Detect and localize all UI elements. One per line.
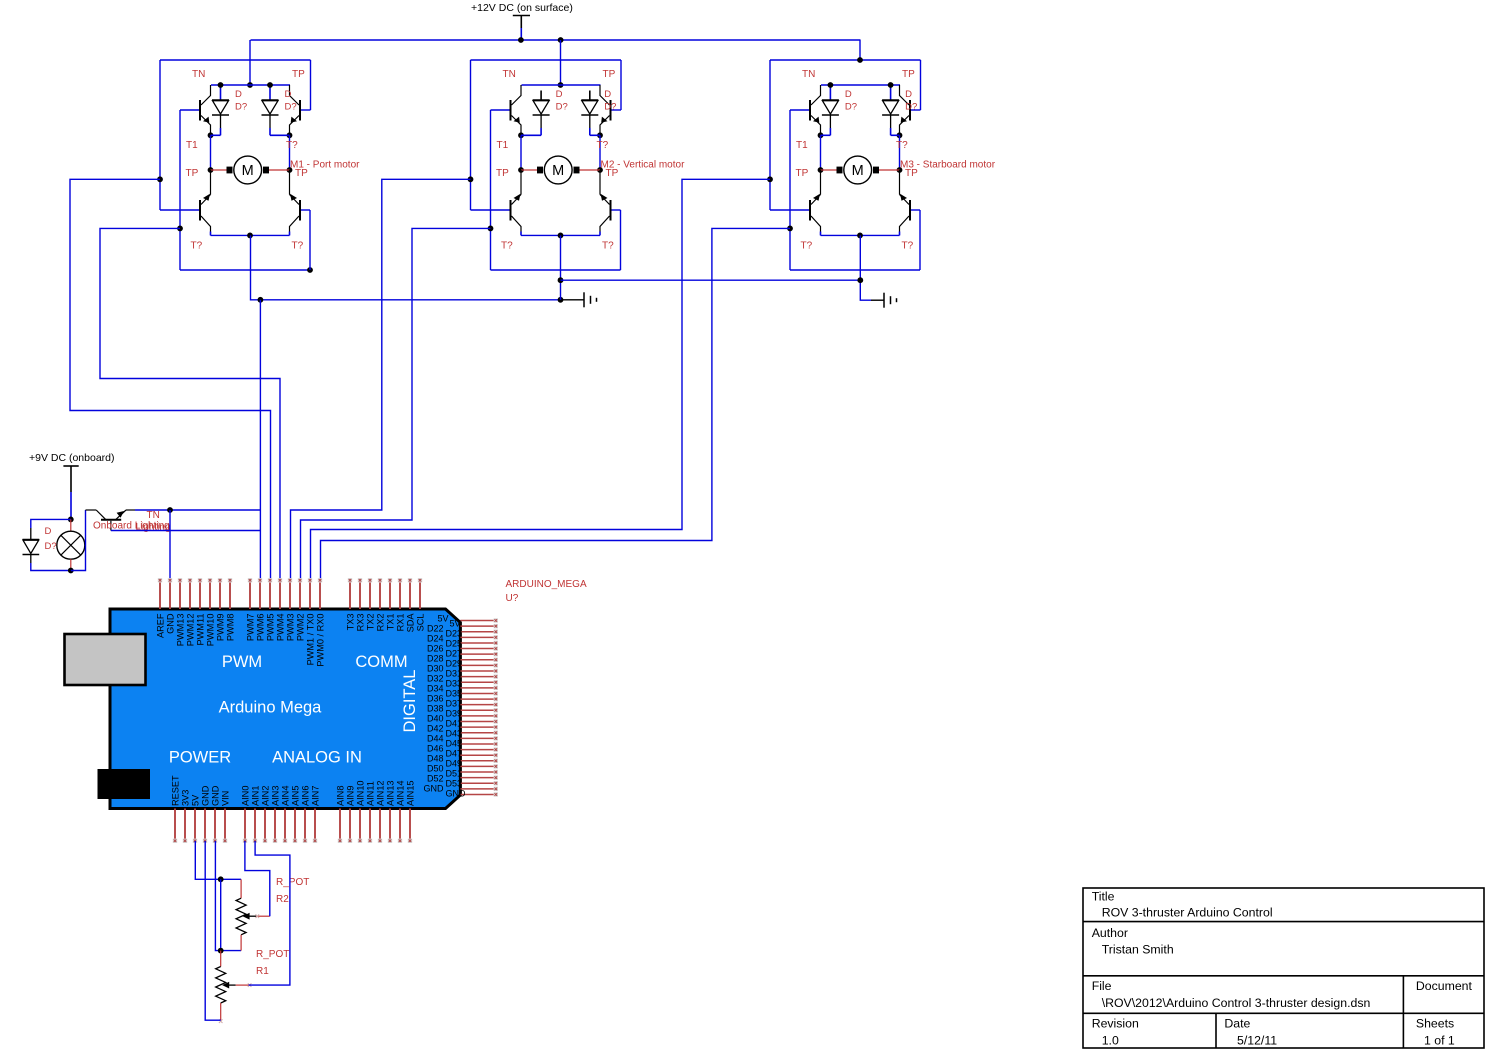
transistor T1 (M2 upper-left PNP) (510, 100, 512, 121)
svg-text:Tristan Smith: Tristan Smith (1102, 943, 1174, 957)
wire M2 upper-right emitter node (597, 132, 603, 138)
diode D? (M1 left flyback) (220, 85, 222, 100)
svg-text:D24: D24 (427, 634, 444, 644)
svg-text:AIN10: AIN10 (356, 780, 366, 806)
wire M3 inner vertical (second base net) (789, 110, 791, 270)
svg-text:M: M (242, 163, 254, 179)
svg-text:D37: D37 (446, 699, 463, 709)
svg-text:AIN15: AIN15 (406, 780, 416, 806)
svg-text:\ROV\2012\Arduino Control 3-th: \ROV\2012\Arduino Control 3-thruster des… (1102, 996, 1371, 1010)
svg-text:T?: T? (896, 140, 908, 151)
svg-text:D31: D31 (446, 669, 463, 679)
svg-text:D: D (235, 89, 242, 100)
svg-text:D36: D36 (427, 694, 444, 704)
wire M1 base net bottom edge (180, 269, 310, 271)
wire M3 base net right lower edge (919, 210, 921, 270)
svg-text:AIN4: AIN4 (281, 786, 291, 806)
svg-text:AIN3: AIN3 (271, 786, 281, 806)
wire M1 +12V feed (249, 40, 251, 85)
svg-text:PWM8: PWM8 (226, 614, 236, 642)
svg-text:T?: T? (602, 241, 614, 252)
wire M1 upper-left emitter node (208, 132, 214, 138)
svg-text:D34: D34 (427, 684, 444, 694)
wire M1 base net right upper edge (310, 60, 312, 110)
svg-text:R_POT: R_POT (256, 949, 289, 960)
node M3 tap A (767, 176, 773, 182)
svg-text:POWER: POWER (169, 749, 231, 767)
svg-text:Author: Author (1092, 926, 1128, 940)
wire ground riser to GND net (259, 300, 261, 510)
pin AIN3 (bottom) (274, 809, 276, 842)
wire GND net drop to PWM6 (259, 510, 261, 580)
svg-text:+9V DC (onboard): +9V DC (onboard) (29, 452, 115, 464)
svg-text:Title: Title (1092, 890, 1115, 904)
wire M3 upper-right emitter node (897, 132, 903, 138)
node M1 left motor terminal (208, 167, 214, 173)
wire M3 lower-right base lead (910, 209, 920, 211)
wire M3 collector rail (821, 84, 900, 86)
node M1 right diode anode (267, 82, 273, 88)
svg-text:TN: TN (503, 69, 516, 80)
pin 3V3 (bottom) (184, 809, 186, 842)
wire M1 base net right lower edge (309, 210, 311, 270)
wire M3 base net bottom edge (790, 269, 920, 271)
pin SDA (top) (409, 580, 411, 609)
wire M3 +12V feed (859, 40, 861, 60)
svg-text:1.0: 1.0 (1102, 1034, 1119, 1048)
wire M2 base net right upper edge (620, 60, 622, 110)
svg-text:5/12/11: 5/12/11 (1237, 1034, 1277, 1048)
svg-text:D40: D40 (427, 714, 444, 724)
node lamp bottom (68, 568, 74, 574)
wire M1 tap A to PWM5 (70, 179, 271, 580)
node ground tap to arduino (258, 297, 264, 303)
svg-text:D30: D30 (427, 664, 444, 674)
svg-text:5V: 5V (437, 614, 448, 624)
transistor T? (M2 lower-right) (610, 200, 612, 221)
svg-text:T?: T? (191, 241, 203, 252)
wire M1 right motor branch (289, 135, 291, 170)
svg-text:D45: D45 (446, 739, 463, 749)
node M1 emitter rail (247, 233, 253, 239)
wire M2 base net bottom edge (491, 269, 621, 271)
svg-text:D39: D39 (446, 709, 463, 719)
wire lamp to driver collector (71, 510, 86, 571)
pins D22-D53 5V GND (right stubs) (460, 620, 495, 622)
diode D? (M2 right flyback) (589, 91, 591, 101)
pin AIN11 (bottom) (369, 809, 371, 842)
pin PWM0 / RX0 (top) (319, 580, 321, 609)
svg-text:D44: D44 (427, 734, 444, 744)
pin PWM13 (top) (179, 580, 181, 609)
svg-text:D47: D47 (446, 749, 463, 759)
svg-text:D42: D42 (427, 724, 444, 734)
svg-text:File: File (1092, 979, 1112, 993)
pin PWM10 (top) (209, 580, 211, 609)
wire M3 upper-left base lead (790, 109, 810, 111)
svg-text:T?: T? (597, 140, 609, 151)
potentiometer R1 (220, 951, 222, 967)
svg-text:TX1: TX1 (386, 614, 396, 631)
node M3 ground tie (857, 277, 863, 283)
pin PWM5 (top) (269, 580, 271, 609)
pin AIN10 (bottom) (359, 809, 361, 842)
wire M2 base net left edge (470, 60, 472, 210)
node M3 left motor terminal (818, 167, 824, 173)
wire GND2 to pot mid (215, 841, 241, 951)
transistor T? (M2 upper-right PNP) (610, 100, 612, 121)
pin AIN8 (bottom) (339, 809, 341, 842)
svg-text:TP: TP (292, 69, 305, 80)
svg-text:GND: GND (211, 785, 221, 806)
svg-text:D51: D51 (446, 769, 463, 779)
wire M3 right motor branch (899, 135, 901, 170)
pin RX2 (top) (379, 580, 381, 609)
wire M3 base net left edge (769, 60, 771, 210)
svg-text:D48: D48 (427, 754, 444, 764)
svg-text:D22: D22 (427, 624, 444, 634)
wire M2 upper-left base lead (491, 109, 511, 111)
wire M2 right motor branch (599, 135, 601, 170)
svg-text:ANALOG IN: ANALOG IN (272, 749, 362, 767)
svg-text:D50: D50 (427, 764, 444, 774)
node M2-M3 ground tie (558, 277, 564, 283)
motor M3 (821, 169, 837, 171)
svg-text:R2: R2 (276, 894, 289, 905)
svg-text:AIN11: AIN11 (366, 781, 376, 806)
svg-text:PWM13: PWM13 (176, 614, 186, 647)
node GND pin branch (167, 507, 173, 513)
pin RESET (bottom) (174, 809, 176, 842)
motor M2 (521, 169, 537, 171)
svg-text:Arduino Mega: Arduino Mega (219, 699, 323, 717)
pin AREF (top) (159, 580, 161, 609)
diode D? (M3 left flyback) (829, 85, 831, 100)
transistor T? (M3 upper-right PNP) (909, 100, 911, 121)
svg-text:AIN14: AIN14 (396, 780, 406, 806)
pin AIN12 (bottom) (379, 809, 381, 842)
pin AIN1 (bottom) (254, 809, 256, 842)
svg-text:PWM5: PWM5 (266, 614, 276, 642)
transistor T? (M1 lower-right) (299, 200, 301, 221)
wire M1 collector rail (211, 84, 290, 86)
pin TX1 (top) (389, 580, 391, 609)
wire lamp left loop lower (31, 563, 71, 571)
wire M1 left motor branch (210, 135, 212, 170)
pin PWM7 (top) (249, 580, 251, 609)
wire M3 left motor branch (820, 135, 822, 170)
diode D? (lamp clamp) (30, 528, 32, 540)
wire M1 ground drop (251, 235, 561, 299)
svg-text:AIN7: AIN7 (311, 786, 321, 806)
svg-text:AIN0: AIN0 (241, 786, 251, 806)
svg-text:COMM: COMM (355, 653, 407, 671)
pin AIN2 (bottom) (264, 809, 266, 842)
svg-text:PWM: PWM (222, 653, 262, 671)
wire M2 left motor branch (520, 135, 522, 170)
svg-text:PWM7: PWM7 (246, 614, 256, 642)
svg-text:Date: Date (1224, 1017, 1250, 1031)
USB connector (65, 634, 146, 685)
svg-text:D28: D28 (427, 654, 444, 664)
node +12V at power symbol (518, 37, 524, 43)
svg-text:D: D (905, 89, 912, 100)
node M1 feed to rail (247, 82, 253, 88)
pin SCL (top) (419, 580, 421, 609)
power jack (98, 769, 151, 799)
transistor TN (lamp driver) (86, 509, 97, 511)
svg-text:D?: D? (845, 102, 857, 113)
svg-text:AREF: AREF (156, 613, 166, 638)
svg-text:PWM10: PWM10 (206, 614, 216, 647)
svg-text:VIN: VIN (221, 791, 231, 806)
diode D? (M2 left flyback) (540, 91, 542, 101)
node M1 tap A (157, 176, 163, 182)
svg-text:5V: 5V (191, 794, 201, 806)
wire M2 lower-right base lead (611, 209, 621, 211)
svg-text:D23: D23 (446, 629, 463, 639)
wire M1 base net left edge (159, 60, 161, 210)
svg-text:D32: D32 (427, 674, 444, 684)
node lamp top (68, 517, 74, 523)
pin TX2 (top) (369, 580, 371, 609)
node pot mid (218, 948, 224, 954)
svg-text:DIGITAL: DIGITAL (401, 670, 419, 733)
svg-text:ARDUINO_MEGA: ARDUINO_MEGA (506, 579, 587, 590)
svg-text:TN: TN (147, 510, 160, 521)
node +12V at M2 feed (558, 37, 564, 43)
svg-text:D35: D35 (446, 689, 463, 699)
wire M3 upper-left emitter node (818, 132, 824, 138)
wire M1 upper-right base lead (301, 109, 311, 111)
transistor T? (M1 upper-right PNP) (299, 100, 301, 121)
potentiometer R2 (240, 879, 242, 898)
wire M1 lower-left base lead (160, 209, 200, 211)
node M2 tap B (488, 226, 494, 232)
node ground at M2 column (558, 297, 564, 303)
wire GND pin drop (169, 510, 171, 580)
wire GND1 to R1 bottom (205, 841, 221, 1020)
svg-text:TX2: TX2 (366, 614, 376, 631)
lamp (Onboard Lighting) (70, 519, 72, 531)
node M3 right diode anode (888, 82, 894, 88)
pin 5V (bottom) (194, 809, 196, 842)
svg-text:1 of 1: 1 of 1 (1424, 1034, 1455, 1048)
svg-text:RX2: RX2 (376, 614, 386, 632)
svg-text:TP: TP (796, 168, 809, 179)
wire M1 lower-right base lead (300, 209, 310, 211)
pin GND (bottom) (214, 809, 216, 842)
svg-text:D41: D41 (446, 719, 463, 729)
wire M2 ground drop (560, 235, 562, 299)
wire M2 base net right lower edge (620, 210, 622, 270)
transistor T1 (M3 upper-left PNP) (809, 100, 811, 121)
svg-text:PWM4: PWM4 (276, 614, 286, 642)
wire M3 base net top edge (770, 59, 921, 61)
node M1 right motor terminal (287, 167, 293, 173)
pin GND (bottom) (204, 809, 206, 842)
svg-text:D53: D53 (446, 779, 463, 789)
wire M2 tap A to PWM3 (291, 179, 471, 580)
svg-text:M: M (552, 163, 564, 179)
svg-text:D38: D38 (427, 704, 444, 714)
pin VIN (bottom) (224, 809, 226, 842)
svg-text:T1: T1 (497, 140, 509, 151)
title block frame (1083, 888, 1484, 1048)
node pot top (218, 876, 224, 882)
svg-text:GND: GND (166, 613, 176, 634)
pin PWM12 (top) (189, 580, 191, 609)
wire M3 base net right upper edge (920, 60, 922, 110)
svg-text:D43: D43 (446, 729, 463, 739)
wire M2 collector rail (522, 84, 601, 86)
node M3 feed joins top edge (857, 57, 863, 63)
svg-text:D: D (45, 526, 52, 537)
svg-text:AIN1: AIN1 (251, 786, 261, 806)
pin RX3 (top) (359, 580, 361, 609)
svg-text:D33: D33 (446, 679, 463, 689)
svg-text:D: D (604, 89, 611, 100)
svg-text:T?: T? (286, 140, 298, 151)
svg-text:Lighting: Lighting (136, 522, 171, 533)
node M2 right motor terminal (597, 167, 603, 173)
pin AIN7 (bottom) (314, 809, 316, 842)
wire M2 +12V feed (560, 40, 562, 85)
svg-text:D52: D52 (427, 774, 444, 784)
svg-text:SCL: SCL (416, 614, 426, 632)
svg-text:AIN2: AIN2 (261, 786, 271, 806)
svg-text:TP: TP (902, 69, 915, 80)
wire M2 tap B to PWM2 (301, 228, 491, 580)
svg-text:TP: TP (603, 69, 616, 80)
pin AIN14 (bottom) (399, 809, 401, 842)
svg-text:TP: TP (496, 168, 509, 179)
node M2 left motor terminal (518, 167, 524, 173)
svg-text:GND: GND (424, 784, 445, 794)
wire lamp left loop upper (31, 519, 71, 528)
pin PWM4 (top) (279, 580, 281, 609)
svg-text:AIN6: AIN6 (301, 786, 311, 806)
wire M3 lower-left base lead (770, 209, 810, 211)
svg-text:D25: D25 (446, 639, 463, 649)
svg-text:PWM11: PWM11 (196, 614, 206, 646)
svg-text:M1 - Port motor: M1 - Port motor (290, 160, 360, 171)
transistor T? (M1 lower-left) (199, 200, 201, 221)
pin PWM3 (top) (289, 580, 291, 609)
pin PWM6 (top) (259, 580, 261, 609)
pin AIN6 (bottom) (304, 809, 306, 842)
svg-text:5V: 5V (450, 619, 461, 629)
svg-text:RX1: RX1 (396, 614, 406, 632)
pin AIN9 (bottom) (349, 809, 351, 842)
svg-text:RESET: RESET (171, 775, 181, 806)
svg-text:D?: D? (45, 541, 57, 552)
svg-text:D: D (285, 89, 292, 100)
svg-text:TN: TN (802, 69, 815, 80)
wire M3 upper-right base lead (911, 109, 921, 111)
wire M3 emitter rail (821, 234, 900, 236)
svg-text:PWM0 / RX0: PWM0 / RX0 (316, 614, 326, 667)
svg-text:D46: D46 (427, 744, 444, 754)
wire ground tie M2-M3 (561, 279, 861, 281)
svg-text:TP: TP (186, 168, 199, 179)
node M1 tap B (177, 226, 183, 232)
svg-text:D29: D29 (446, 659, 463, 669)
transistor T? (M3 lower-right) (909, 200, 911, 221)
svg-text:TX3: TX3 (346, 614, 356, 631)
svg-text:D49: D49 (446, 759, 463, 769)
svg-text:T?: T? (292, 241, 304, 252)
wire lamp emitter / GND net (135, 509, 260, 511)
pin PWM2 (top) (299, 580, 301, 609)
svg-text:PWM3: PWM3 (286, 614, 296, 642)
svg-text:D: D (845, 89, 852, 100)
wire M3 tap A to PWM1/TX0 (311, 179, 771, 580)
wire M2 base net top edge (471, 59, 622, 61)
svg-text:D?: D? (905, 102, 917, 113)
svg-text:TN: TN (192, 69, 205, 80)
svg-text:D: D (556, 89, 563, 100)
pin AIN13 (bottom) (389, 809, 391, 842)
op-amp U? Arduino Mega body (110, 609, 460, 809)
svg-text:AIN9: AIN9 (346, 786, 356, 806)
svg-text:M: M (852, 163, 864, 179)
svg-text:PWM12: PWM12 (186, 614, 196, 647)
svg-text:AIN12: AIN12 (376, 780, 386, 806)
svg-text:+12V DC (on surface): +12V DC (on surface) (471, 2, 573, 14)
svg-text:RX3: RX3 (356, 614, 366, 632)
svg-text:M2 - Vertical motor: M2 - Vertical motor (601, 160, 686, 171)
wire pot ladder (220, 879, 222, 950)
svg-text:PWM9: PWM9 (216, 614, 226, 642)
pin PWM1 / TX0 (top) (309, 580, 311, 609)
svg-text:M3 - Starboard motor: M3 - Starboard motor (900, 160, 996, 171)
node M3 tap B (787, 226, 793, 232)
pin PWM8 (top) (229, 580, 231, 609)
node M2 feed to rail (558, 82, 564, 88)
pin GND (top) (169, 580, 171, 609)
svg-text:D?: D? (235, 102, 247, 113)
svg-text:PWM1 / TX0: PWM1 / TX0 (306, 614, 316, 666)
svg-text:T?: T? (801, 241, 813, 252)
ground symbol 1 (561, 299, 585, 301)
svg-text:GND: GND (201, 785, 211, 806)
svg-text:SDA: SDA (406, 613, 416, 633)
wire M1 upper-left base lead (180, 109, 200, 111)
power symbol +9V DC (onboard) (63, 465, 78, 467)
pin AIN15 (bottom) (409, 809, 411, 842)
node M3 right motor terminal (897, 167, 903, 173)
transistor T? (M3 lower-left) (809, 200, 811, 221)
svg-text:Sheets: Sheets (1416, 1017, 1454, 1031)
diode D? (M1 right flyback) (269, 85, 271, 100)
svg-text:T1: T1 (186, 140, 198, 151)
power symbol +12V DC (on surface) (513, 15, 530, 17)
svg-text:R_POT: R_POT (276, 877, 309, 888)
svg-text:GND: GND (446, 789, 467, 799)
svg-text:D26: D26 (427, 644, 444, 654)
svg-text:ROV 3-thruster Arduino Control: ROV 3-thruster Arduino Control (1102, 906, 1273, 920)
pin PWM11 (top) (199, 580, 201, 609)
svg-text:Revision: Revision (1092, 1017, 1139, 1031)
transistor T? (M2 lower-left) (510, 200, 512, 221)
wire M2 lower-left base lead (471, 209, 511, 211)
svg-text:PWM6: PWM6 (256, 614, 266, 642)
svg-text:AIN8: AIN8 (336, 786, 346, 806)
svg-text:D27: D27 (446, 649, 463, 659)
svg-text:T?: T? (902, 241, 914, 252)
pin RX1 (top) (399, 580, 401, 609)
